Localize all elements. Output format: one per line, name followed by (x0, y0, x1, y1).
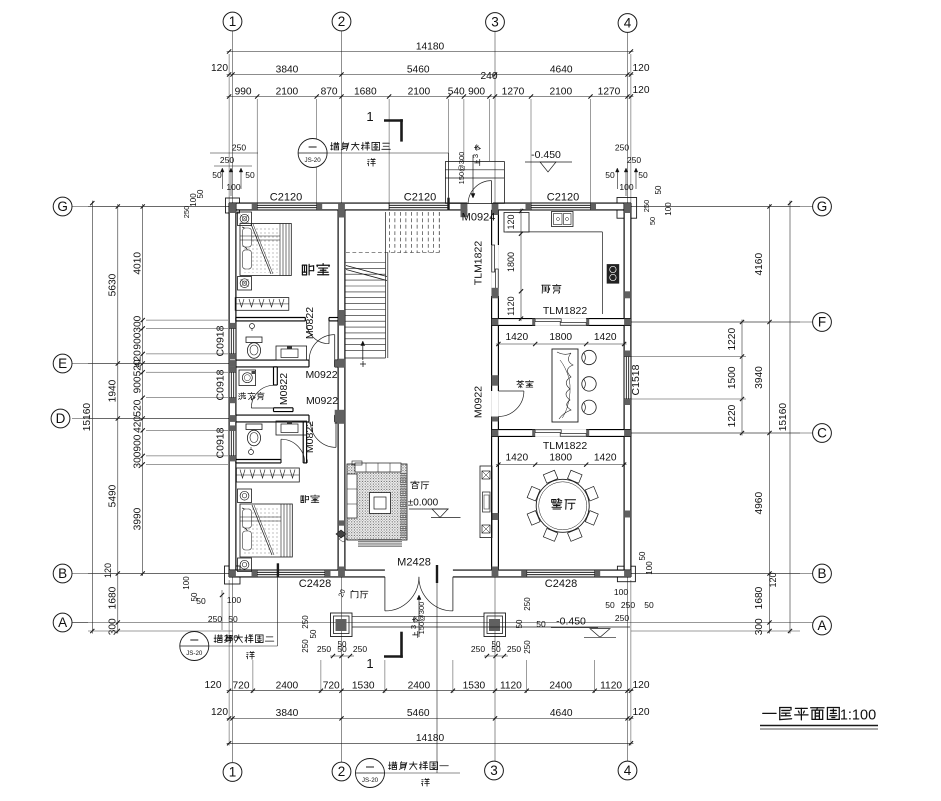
svg-text:240: 240 (481, 71, 498, 82)
svg-text:2400: 2400 (549, 681, 572, 692)
block axis1-E (229, 360, 236, 367)
svg-text:±0.000: ±0.000 (408, 498, 439, 509)
axis bubble 4 top (618, 14, 637, 33)
svg-text:1530: 1530 (352, 681, 375, 692)
svg-text:C0918: C0918 (215, 369, 227, 400)
toilet bathroom1 (246, 337, 262, 343)
room label bedroom2 卧室 (301, 495, 319, 503)
door M0924 back porch (491, 181, 493, 204)
top dimension row 14180 (227, 51, 634, 53)
svg-text:1: 1 (229, 14, 237, 29)
svg-text:2100: 2100 (408, 86, 431, 97)
svg-text:-0.450: -0.450 (556, 616, 586, 628)
svg-text:4640: 4640 (550, 708, 573, 719)
svg-text:990: 990 (235, 86, 252, 97)
axis bubble 1 bottom (223, 763, 242, 782)
svg-text:120: 120 (211, 63, 228, 74)
right dimension column 15160 (789, 201, 791, 634)
tea room table (552, 349, 578, 422)
washing machine laundry (239, 370, 256, 386)
axis bubble 4 bottom (618, 761, 637, 780)
axis bubble B right (813, 564, 832, 583)
bed 1 bedroom1 (240, 224, 291, 276)
axis line F (620, 321, 813, 323)
svg-text:4160: 4160 (754, 253, 765, 276)
bed 2 bedroom2 (240, 504, 292, 557)
back porch up arrow (472, 155, 474, 197)
axis bubble 2 top (332, 12, 351, 31)
svg-text:100: 100 (226, 182, 240, 192)
svg-text:C0918: C0918 (215, 427, 227, 458)
column at axis3-B (492, 567, 499, 577)
svg-text:720: 720 (323, 681, 340, 692)
vanity bathroom2 (276, 421, 307, 435)
svg-text:M0822: M0822 (304, 307, 316, 339)
room label dining 餐厅 (552, 499, 576, 510)
wall bathroom2 right partition (303, 422, 306, 463)
svg-text:250: 250 (627, 155, 641, 165)
window C2120 top-right kitchen (531, 203, 591, 210)
kitchen interior dimension line (520, 209, 522, 322)
sofa set living room stippled rug (347, 464, 407, 540)
bottom dimension row 3840 5460 4640 (227, 717, 634, 719)
kitchen cooktop (607, 264, 620, 284)
svg-text:1: 1 (366, 656, 373, 671)
svg-text:720: 720 (233, 681, 250, 692)
svg-text:870: 870 (321, 86, 338, 97)
svg-text:50: 50 (605, 600, 615, 610)
room label laundry 洗衣房 (239, 392, 265, 399)
svg-text:520: 520 (133, 399, 144, 416)
porch edge lines (352, 615, 484, 617)
svg-text:A: A (58, 615, 67, 630)
detail callout 墙身大样图二 (180, 632, 209, 661)
svg-text:G: G (817, 199, 828, 214)
svg-text:300: 300 (108, 618, 119, 635)
sofa top cushions (355, 463, 401, 472)
svg-text:50: 50 (245, 170, 255, 180)
svg-text:1270: 1270 (598, 86, 621, 97)
svg-text:4: 4 (624, 16, 632, 31)
kitchen sink (552, 212, 574, 227)
wall D interior (236, 415, 309, 422)
svg-text:120: 120 (633, 707, 650, 718)
vanity bathroom1 (276, 346, 307, 360)
svg-text:250: 250 (642, 200, 651, 213)
room label foyer 门厅 (351, 590, 368, 598)
TV cabinet living room (480, 466, 492, 538)
svg-text:900: 900 (133, 434, 144, 451)
axis bubble A left (53, 613, 72, 632)
column at axis1-B (229, 570, 236, 577)
svg-text:50: 50 (492, 640, 501, 649)
wall G top exterior (229, 203, 631, 210)
stairs lower flight treads (345, 262, 386, 264)
axis line G (72, 206, 813, 208)
svg-text:1800: 1800 (549, 453, 572, 464)
wall axis1 left exterior (229, 203, 236, 577)
svg-text:F: F (818, 315, 826, 330)
svg-text:250: 250 (220, 155, 234, 165)
svg-text:120: 120 (633, 85, 650, 96)
wall bathroom2 bottom stub (304, 460, 307, 463)
svg-text:250: 250 (471, 644, 485, 654)
svg-text:14180: 14180 (416, 41, 445, 52)
svg-text:50: 50 (338, 640, 347, 649)
svg-text:1800: 1800 (549, 332, 572, 343)
svg-text:100: 100 (614, 587, 628, 597)
svg-text:50: 50 (605, 170, 615, 180)
door M0922 tea room (498, 390, 524, 392)
wall F interior (492, 319, 631, 326)
door opening M0924 in G wall (467, 203, 492, 211)
porch column axis3-A (484, 613, 506, 637)
extension lines top (256, 99, 258, 203)
svg-text:1220: 1220 (727, 328, 738, 351)
window C0918 bath1 (229, 328, 236, 354)
axis line D (72, 418, 232, 420)
svg-text:250: 250 (208, 614, 222, 624)
door M0922 in E wall (334, 335, 336, 361)
axis bubble 3 bottom (485, 761, 504, 780)
svg-text:2: 2 (338, 14, 346, 29)
svg-text:M0922: M0922 (305, 369, 337, 381)
sofa left cushions (347, 474, 357, 518)
wall E interior (236, 360, 309, 367)
svg-text:1800: 1800 (506, 252, 516, 272)
axis bubble D left (51, 409, 70, 428)
svg-text:5460: 5460 (407, 64, 430, 75)
column at axis4-G (624, 203, 631, 213)
block G wall window3 left (526, 203, 532, 210)
dining chairs (585, 511, 598, 526)
left dimension column 5630 1940 5490 1680 (117, 204, 119, 634)
level mark 0.000 living room (411, 481, 429, 489)
stairs bottom edge (345, 357, 386, 359)
axis bubble G right (813, 197, 832, 216)
svg-text:JS-20: JS-20 (362, 777, 379, 784)
room label tea 茶室 (517, 380, 534, 387)
block axis1 window flanks (229, 323, 236, 329)
sofa decor diamond (336, 530, 346, 538)
svg-text:300: 300 (754, 618, 765, 635)
svg-text:2100: 2100 (276, 86, 299, 97)
sliding door TLM1822 in F wall (535, 318, 586, 326)
axis bubble A right (813, 616, 832, 635)
column at axis4-B (624, 570, 631, 577)
svg-text:15160: 15160 (778, 403, 789, 432)
svg-text:1420: 1420 (505, 453, 528, 464)
axis line E (72, 363, 232, 365)
door opening M0922 tea room on axis3 (491, 391, 499, 417)
right dimension column 4160 3940 4960 1680 (769, 204, 771, 634)
svg-text:250: 250 (182, 206, 191, 219)
svg-text:C2428: C2428 (299, 578, 331, 590)
svg-text:50: 50 (654, 185, 663, 194)
svg-text:C1518: C1518 (630, 364, 642, 395)
sofa comb band right (400, 472, 407, 538)
svg-text:150@300: 150@300 (457, 152, 466, 185)
svg-text:120: 120 (211, 707, 228, 718)
axis line B (72, 573, 813, 575)
svg-text:250: 250 (621, 600, 635, 610)
svg-text:TLM1822: TLM1822 (473, 241, 485, 286)
svg-text:4010: 4010 (133, 252, 144, 275)
svg-text:2100: 2100 (549, 86, 572, 97)
svg-text:C2120: C2120 (404, 192, 436, 204)
svg-text:3: 3 (491, 15, 499, 30)
svg-text:M0922: M0922 (473, 386, 485, 418)
svg-text:1120: 1120 (600, 681, 622, 692)
svg-text:E: E (58, 356, 67, 371)
room label kitchen 厨房 (542, 284, 561, 293)
svg-text:250: 250 (353, 644, 367, 654)
wall bathroom1 top (236, 318, 306, 321)
svg-text:1: 1 (366, 109, 373, 124)
stairs diagonal break line (346, 266, 387, 277)
block G wall window3 right (591, 203, 597, 210)
svg-text:M0924: M0924 (462, 212, 496, 224)
svg-text:50: 50 (536, 619, 546, 629)
svg-text:3940: 3940 (754, 366, 765, 389)
svg-text:250: 250 (615, 613, 629, 623)
bottom dimension row detail (227, 690, 634, 692)
svg-text:1120: 1120 (500, 681, 522, 692)
svg-text:50: 50 (190, 592, 199, 601)
stairs up arrow (362, 342, 364, 360)
svg-text:3: 3 (471, 154, 480, 158)
svg-text:M0922: M0922 (306, 395, 338, 407)
wall bathroom2 bottom (236, 460, 281, 463)
svg-text:1680: 1680 (754, 586, 765, 609)
svg-text:M2428: M2428 (397, 557, 431, 569)
svg-text:100: 100 (645, 561, 654, 575)
svg-text:100: 100 (227, 595, 241, 605)
block B wall window1 flanks (252, 570, 258, 577)
column at axis2-G (338, 203, 345, 217)
svg-text:B: B (58, 566, 67, 581)
svg-text:540: 540 (448, 86, 465, 97)
corner pilaster top-right (617, 198, 637, 219)
svg-text:1:100: 1:100 (840, 708, 876, 724)
svg-text:1420: 1420 (594, 453, 617, 464)
tea room stools (582, 350, 596, 364)
axis bubble C right (813, 424, 832, 443)
window C2120 top-left (257, 203, 317, 210)
svg-text:4: 4 (624, 763, 632, 778)
wall B bottom exterior (229, 570, 631, 577)
svg-text:C2120: C2120 (547, 192, 579, 204)
svg-text:3: 3 (490, 763, 498, 778)
svg-text:100: 100 (619, 182, 633, 192)
svg-text:1120: 1120 (506, 296, 516, 315)
svg-text:C2428: C2428 (545, 578, 577, 590)
axis bubble B left (53, 564, 72, 583)
svg-text:250: 250 (301, 639, 310, 653)
left dimension column 15160 (91, 201, 93, 634)
door M0822 bathroom1 (328, 321, 330, 344)
svg-text:900: 900 (133, 376, 144, 393)
extension lines bottom (252, 660, 254, 693)
block axis1-D (229, 415, 236, 422)
door M0822 laundry (251, 407, 274, 409)
double door M2428 entrance (384, 577, 386, 611)
nightstand bedroom2 bottom (238, 558, 252, 572)
room label bedroom1 卧室 (302, 264, 329, 275)
nightstand bedroom1 bottom (238, 277, 252, 291)
svg-text:1420: 1420 (594, 332, 617, 343)
svg-text:250: 250 (232, 143, 246, 153)
dim row below F wall (496, 343, 627, 345)
svg-text:JS-20: JS-20 (186, 650, 203, 657)
svg-text:120: 120 (205, 680, 222, 691)
axis bubble G left (53, 197, 72, 216)
svg-text:50: 50 (228, 614, 238, 624)
svg-text:5490: 5490 (108, 484, 119, 507)
svg-text:1680: 1680 (354, 86, 377, 97)
stairs dashed landing line (346, 252, 439, 254)
wardrobe bedroom2 (236, 468, 299, 482)
svg-text:250: 250 (507, 644, 521, 654)
svg-text:14180: 14180 (416, 733, 445, 744)
window C1518 tea room (624, 357, 631, 400)
porch column axis2-A (331, 613, 353, 637)
svg-text:3840: 3840 (276, 708, 299, 719)
svg-text:M0822: M0822 (278, 373, 290, 405)
svg-text:120: 120 (103, 563, 113, 578)
svg-text:2400: 2400 (408, 681, 431, 692)
svg-text:250: 250 (224, 633, 238, 643)
svg-text:1: 1 (229, 765, 237, 780)
svg-text:B: B (817, 566, 826, 581)
dining table (536, 479, 589, 532)
sofa bottom strip (358, 539, 402, 547)
door M0822 bathroom2 (280, 439, 282, 463)
corner pilaster bottom-left (225, 566, 241, 584)
kitchen fridge (504, 213, 529, 233)
svg-text:150@300: 150@300 (417, 602, 426, 635)
corner pilaster top-left (226, 198, 240, 213)
svg-text:1500: 1500 (727, 366, 738, 389)
back porch step lines (445, 169, 504, 171)
wall D stub at axis2 (335, 415, 338, 422)
svg-text:120: 120 (633, 63, 650, 74)
svg-text:C0918: C0918 (215, 325, 227, 356)
svg-text:1940: 1940 (108, 379, 119, 402)
svg-text:5630: 5630 (108, 273, 119, 296)
door M0922 in D wall (335, 422, 337, 448)
svg-text:100: 100 (182, 576, 191, 590)
svg-text:520: 520 (133, 359, 144, 376)
right dimension column 1220 1500 1220 (741, 320, 743, 436)
top dimension row detail (227, 96, 634, 98)
svg-text:5460: 5460 (407, 708, 430, 719)
title 一层平面图 1:100 (763, 707, 840, 719)
sliding door TLM1822 in C wall (535, 429, 586, 437)
entrance steps arrow (418, 596, 420, 637)
block G wall window1 right (317, 203, 323, 210)
blocks on axis4 wall (624, 291, 631, 298)
svg-text:G: G (57, 199, 68, 214)
axis bubble 2 bottom (332, 762, 351, 781)
svg-text:100: 100 (664, 202, 673, 216)
svg-text:1270: 1270 (502, 86, 525, 97)
svg-text:50: 50 (309, 629, 318, 638)
blocks on axis2 wall (338, 310, 345, 326)
axis bubble 3 top (486, 13, 505, 32)
detail callout 墙身大样图三 (298, 139, 327, 168)
window C0918 bath2 (229, 430, 236, 456)
wall laundry jog (274, 408, 294, 412)
svg-text:100: 100 (189, 193, 198, 207)
wall axis3 interior (492, 210, 499, 570)
svg-text:250: 250 (615, 143, 629, 153)
axis line A (72, 622, 813, 624)
axis bubble E left (53, 354, 72, 373)
svg-text:2400: 2400 (276, 681, 299, 692)
svg-text:900: 900 (133, 332, 144, 349)
back porch steps outline (445, 162, 504, 204)
svg-text:2: 2 (338, 764, 346, 779)
svg-text:300: 300 (133, 315, 144, 332)
window C2120 top-middle (389, 203, 449, 210)
window C2428 bottom-right (527, 570, 595, 577)
svg-text:300: 300 (133, 451, 144, 468)
blocks on axis3 wall (492, 288, 499, 299)
svg-text:4960: 4960 (754, 492, 765, 515)
block G wall door M0924 left (461, 203, 468, 217)
svg-text:250: 250 (523, 597, 532, 611)
svg-text:50: 50 (648, 217, 657, 225)
column at axis3-G (492, 203, 499, 215)
svg-text:50: 50 (638, 551, 647, 560)
wall C interior (492, 430, 631, 437)
svg-text:50: 50 (638, 170, 648, 180)
svg-text:900: 900 (468, 86, 485, 97)
svg-text:1420: 1420 (505, 332, 528, 343)
svg-text:120: 120 (506, 214, 516, 229)
svg-text:A: A (817, 618, 826, 633)
sofa coffee table (370, 493, 391, 514)
bottom dimension row 14180 (227, 742, 634, 744)
svg-text:250: 250 (523, 640, 532, 654)
svg-text:50: 50 (515, 619, 524, 628)
toilet bathroom2 (246, 424, 262, 430)
axis bubble F right (813, 313, 832, 332)
door opening M2428 in B wall (385, 570, 453, 578)
svg-text:TLM1822: TLM1822 (543, 440, 588, 452)
svg-text:250: 250 (317, 644, 331, 654)
wall axis4 right exterior (624, 203, 631, 577)
svg-text:JS-20: JS-20 (305, 157, 322, 164)
top dimension row 3840 5460 4640 (227, 74, 634, 76)
svg-text:C2120: C2120 (270, 192, 302, 204)
nightstand bedroom1 top (238, 212, 252, 226)
svg-text:1680: 1680 (108, 586, 119, 609)
svg-text:3990: 3990 (133, 507, 144, 530)
floor drain bathroom1 (250, 324, 255, 329)
wall axis2 interior (338, 210, 345, 570)
wardrobe bedroom1 (235, 298, 289, 311)
svg-text:15160: 15160 (82, 403, 93, 432)
dim row below C wall (496, 464, 627, 466)
svg-text:120: 120 (633, 680, 650, 691)
kitchen counter edge (506, 231, 602, 233)
left dimension column detail 4010 (142, 204, 144, 576)
svg-text:3840: 3840 (276, 64, 299, 75)
svg-text:M0822: M0822 (304, 421, 316, 453)
nightstand bedroom2 top (238, 489, 252, 503)
